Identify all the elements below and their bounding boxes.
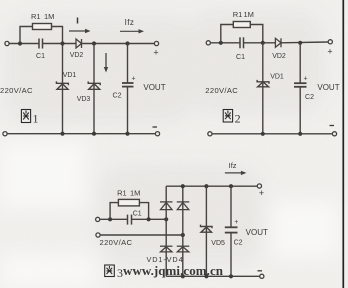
- resistor R1: [233, 22, 250, 28]
- output terminal +: [154, 41, 158, 45]
- svg-text:+: +: [327, 47, 332, 57]
- diode VD3 (shunt): [88, 81, 100, 89]
- wire C1 to VD2: [43, 43, 77, 45]
- junction node (right column / bottom rail): [181, 274, 185, 278]
- capacitor C1: [128, 215, 132, 225]
- junction node (C2 tap): [298, 41, 302, 45]
- page border right edge: [342, 0, 344, 288]
- junction node (C2 tap): [125, 41, 129, 45]
- junction node (VD3 tap): [92, 41, 96, 45]
- resistor R1: [118, 199, 139, 206]
- junction node (C2 / rail): [125, 132, 129, 136]
- wire C2 branch lower: [127, 87, 129, 134]
- wire R1 branch down-right: [52, 27, 63, 44]
- junction node (VD3 / rail): [92, 132, 96, 136]
- wire input to C1: [210, 42, 240, 44]
- wire bridge left column: [165, 186, 167, 276]
- current arrow Ifz: [120, 29, 144, 33]
- svg-text:1M: 1M: [244, 10, 254, 19]
- junction node (VD5 / top rail): [204, 184, 208, 188]
- output terminal +: [328, 40, 332, 44]
- input terminal L2 bottom: [208, 132, 212, 136]
- svg-text:+: +: [259, 188, 264, 198]
- svg-text:C2: C2: [113, 93, 122, 100]
- diode VD2: [76, 39, 82, 48]
- wire C2 branch upper: [127, 44, 129, 84]
- svg-text:VD5: VD5: [211, 240, 225, 247]
- svg-text:2: 2: [235, 112, 241, 126]
- junction node (VD5 / bottom rail): [204, 274, 208, 278]
- svg-text:C1: C1: [36, 53, 45, 60]
- output terminal +: [257, 184, 261, 188]
- capacitor C1: [39, 39, 43, 49]
- svg-text:Ifz: Ifz: [229, 161, 237, 170]
- wire input line2 to bridge right mid: [100, 234, 183, 236]
- diode VD1 (shunt): [56, 81, 68, 89]
- junction node (C2 / top rail): [229, 184, 233, 188]
- output terminal -: [332, 132, 336, 136]
- wire R1 branch up-left: [221, 25, 234, 43]
- svg-text:R1: R1: [31, 12, 41, 21]
- current arrow I: [69, 29, 91, 33]
- wire bridge right column: [182, 186, 184, 276]
- capacitor C2 (electrolytic): [294, 83, 307, 87]
- capacitor C2 (electrolytic): [225, 227, 238, 232]
- svg-text:VD1: VD1: [63, 72, 77, 79]
- svg-text:VD1: VD1: [270, 74, 284, 81]
- label -: [153, 126, 158, 128]
- svg-text:1: 1: [33, 112, 39, 126]
- wire C2 branch upper: [230, 186, 232, 227]
- wire R1 branch up-left: [110, 203, 118, 220]
- input terminal L1 top: [5, 41, 9, 45]
- svg-text:C1: C1: [133, 211, 142, 218]
- junction node (R1 return): [147, 217, 151, 221]
- wire VD1 branch: [262, 43, 264, 134]
- wire bottom rail: [212, 133, 332, 135]
- svg-text:VD2: VD2: [272, 53, 286, 60]
- figure label 图3: [105, 265, 115, 277]
- wire bottom rail: [7, 133, 155, 135]
- svg-text:Ifz: Ifz: [125, 18, 135, 27]
- junction node (bridge left mid): [164, 217, 168, 221]
- svg-text:VOUT: VOUT: [246, 228, 268, 237]
- junction node (right column / top rail): [181, 184, 185, 188]
- svg-text:C2: C2: [234, 239, 243, 246]
- input terminal L3 line2: [96, 233, 100, 237]
- wire VD1 branch: [62, 44, 64, 134]
- svg-text:C1: C1: [236, 54, 245, 61]
- current arrow down (through VD3): [104, 53, 108, 73]
- input terminal L3 line1: [96, 217, 100, 221]
- junction node (R1 branch tap): [108, 217, 112, 221]
- svg-text:www.jqmi.com.cn: www.jqmi.com.cn: [123, 263, 224, 278]
- svg-text:220V/AC: 220V/AC: [205, 86, 238, 95]
- capacitor C2 (electrolytic): [122, 83, 134, 87]
- diode VD3 (bridge lower-left): [160, 246, 173, 252]
- svg-text:VD2: VD2: [70, 52, 84, 59]
- svg-text:R1: R1: [117, 189, 127, 198]
- junction node (VD1 / rail): [60, 132, 64, 136]
- svg-text:VOUT: VOUT: [143, 83, 165, 92]
- svg-text:C2: C2: [305, 94, 314, 101]
- label -: [330, 125, 335, 127]
- svg-text:220V/AC: 220V/AC: [100, 238, 133, 247]
- wire C2 branch lower: [299, 87, 301, 134]
- input terminal L2 top: [206, 41, 210, 45]
- input terminal L1 bottom: [3, 132, 7, 136]
- svg-text:+: +: [153, 48, 158, 58]
- wire R1 branch up-left: [20, 27, 33, 44]
- output terminal -: [155, 132, 159, 136]
- wire C2 branch lower: [230, 233, 232, 277]
- zener diode VD5: [201, 225, 213, 233]
- wire bridge top rail: [166, 185, 257, 187]
- wire C1 to bridge: [132, 218, 167, 220]
- svg-text:1M: 1M: [130, 189, 140, 198]
- wire VD5 branch: [205, 186, 207, 276]
- junction node (R1 return / VD1 tap): [261, 41, 265, 45]
- label -: [258, 270, 263, 272]
- svg-text:+: +: [131, 76, 135, 83]
- svg-text:+: +: [234, 219, 238, 226]
- svg-text:+: +: [303, 76, 307, 83]
- current label I: [77, 18, 79, 24]
- svg-text:VD3: VD3: [77, 96, 91, 103]
- junction node (C2 / bottom rail): [229, 274, 233, 278]
- capacitor C1: [240, 37, 244, 48]
- svg-text:R1: R1: [233, 10, 243, 19]
- figure label 图1: [21, 110, 30, 123]
- current arrow Ifz: [225, 171, 247, 175]
- junction node (VD1 / rail): [261, 132, 265, 136]
- wire input line1 to C1: [100, 218, 128, 220]
- resistor R1: [33, 24, 52, 30]
- wire R1 branch down-right: [139, 203, 148, 220]
- wire input to C1: [9, 43, 39, 45]
- output terminal -: [260, 274, 264, 278]
- wire bottom rail: [166, 275, 260, 277]
- svg-text:220V/AC: 220V/AC: [0, 86, 33, 95]
- svg-text:1M: 1M: [44, 12, 54, 21]
- wire VD3 branch: [93, 44, 95, 134]
- diode VD1 (bridge upper-left): [160, 202, 173, 210]
- junction node (R1 return / VD1 tap): [60, 41, 64, 45]
- diode VD1 (shunt): [257, 80, 269, 87]
- svg-text:VOUT: VOUT: [317, 83, 339, 92]
- junction node (C2 / rail): [298, 132, 302, 136]
- diode VD2: [275, 38, 281, 47]
- diode VD4 (bridge lower-right): [177, 246, 190, 252]
- diode VD2 (bridge upper-right): [177, 202, 190, 210]
- wire C1 to VD2: [244, 42, 276, 44]
- wire VD2 to output: [281, 41, 328, 44]
- junction node (R1 branch tap): [18, 41, 22, 45]
- junction node (bridge right mid): [181, 233, 185, 237]
- wire C2 branch upper: [299, 43, 301, 83]
- wire R1 branch down-right: [250, 25, 262, 43]
- figure label 图2: [223, 110, 232, 123]
- wire VD2 to output: [82, 43, 155, 45]
- junction node (R1 branch tap): [219, 41, 223, 45]
